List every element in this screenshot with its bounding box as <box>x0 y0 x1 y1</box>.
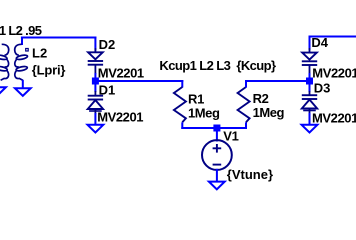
wire D3 to ground <box>309 113 311 125</box>
junction node at D2/D1 <box>92 78 99 85</box>
svg-text:R2: R2 <box>253 91 269 106</box>
resistor R2 <box>238 87 250 122</box>
diode D2 (varactor) <box>88 52 103 64</box>
ground under V1 <box>209 182 225 190</box>
ground under L2 <box>15 88 31 96</box>
wire D4 to junction <box>309 73 311 81</box>
ground under D1 <box>88 125 104 133</box>
svg-text:MV2201: MV2201 <box>312 65 356 80</box>
ground under D3 <box>302 125 318 133</box>
diode D2 lead top <box>95 48 97 53</box>
svg-text:MV2201: MV2201 <box>312 110 356 125</box>
resistor R1 <box>174 87 186 122</box>
V1 plus sign <box>213 144 222 153</box>
wire R1 bottom vertical <box>181 122 183 129</box>
junction node at V1 top <box>213 125 220 132</box>
svg-text:1Meg: 1Meg <box>188 105 220 120</box>
wire D3 top stub <box>309 84 311 92</box>
svg-text:L2: L2 <box>32 45 47 60</box>
wire D2 to junction <box>94 73 96 81</box>
phase dot L2 <box>26 49 29 52</box>
wire L2 top stub <box>21 37 23 46</box>
svg-text:R1: R1 <box>188 91 204 106</box>
diode D1 (varactor) <box>88 96 103 111</box>
wire R1 top vertical <box>181 80 183 88</box>
diode D3 (varactor) <box>302 95 317 110</box>
svg-text:1 L2 .95: 1 L2 .95 <box>0 23 42 38</box>
inductor L2 bottom lead <box>22 80 24 89</box>
diode D2 lead bottom <box>95 65 97 74</box>
ground L1 (partial) <box>0 87 6 95</box>
inductor L1 (partial, cut at left edge) <box>0 44 9 80</box>
svg-text:{Vtune}: {Vtune} <box>227 167 273 182</box>
diode D4 lead top <box>309 48 311 53</box>
diode D4 lead bottom <box>309 65 311 74</box>
wire V1 bottom stub <box>216 169 218 182</box>
svg-text:Kcup1 L2 L3 {Kcup}: Kcup1 L2 L3 {Kcup} <box>159 58 276 73</box>
wire R2 top vertical <box>245 80 247 88</box>
wire D2 top vertical <box>94 37 96 51</box>
diode D4 (varactor) <box>302 53 317 65</box>
wire D1 to ground <box>94 113 96 125</box>
wire D1 top stub <box>94 84 96 92</box>
wire V1 top stub <box>216 129 218 142</box>
svg-text:D2: D2 <box>99 37 116 52</box>
svg-text:MV2201: MV2201 <box>98 66 144 81</box>
inductor L2 <box>15 44 28 80</box>
svg-text:D3: D3 <box>314 80 331 95</box>
wire R2 to right junction horizontal <box>245 80 311 82</box>
svg-text:1Meg: 1Meg <box>253 105 285 120</box>
diode D1 lead top <box>95 91 97 96</box>
voltage source V1 circle <box>202 140 232 170</box>
V1 minus sign <box>213 164 222 166</box>
wire junction to R1 horizontal <box>94 80 183 82</box>
wire top-left horizontal <box>21 37 97 39</box>
svg-text:D4: D4 <box>311 35 328 50</box>
junction node at D4/D3 <box>306 78 313 85</box>
diode D3 lead bottom <box>309 109 311 114</box>
wire D4 top vertical <box>309 36 311 51</box>
wire top-right horizontal <box>309 36 356 38</box>
diode D3 lead top <box>309 91 311 95</box>
diode D1 lead bottom <box>95 109 97 114</box>
wire bottom horizontal R1-R2 <box>181 127 247 129</box>
svg-text:V1: V1 <box>223 129 238 144</box>
wire R2 bottom vertical <box>245 122 247 129</box>
svg-text:{Lpri}: {Lpri} <box>32 62 66 77</box>
svg-text:MV2201: MV2201 <box>97 110 143 125</box>
